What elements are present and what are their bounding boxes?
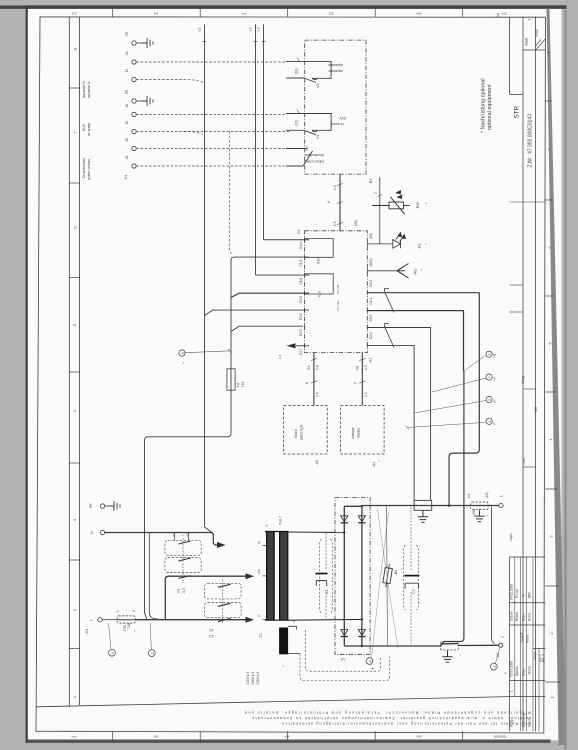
tick at leader end bbox=[228, 349, 232, 353]
bus from D2:1 down to - rail bbox=[441, 371, 464, 646]
svg-text:R.Lud: R.Lud bbox=[515, 589, 519, 598]
leader curves bbox=[378, 509, 399, 648]
ground below F12 bbox=[442, 650, 452, 662]
EUV pump device K1: body bbox=[286, 114, 331, 135]
AC in top bbox=[335, 531, 344, 533]
F12 solid bar bbox=[441, 643, 459, 645]
svg-text:K1: K1 bbox=[316, 134, 320, 138]
svg-text:D1:5: D1:5 bbox=[299, 260, 303, 267]
svg-text:tol: tol bbox=[496, 13, 500, 17]
svg-text:-L3: -L3 bbox=[257, 27, 261, 32]
svg-text:8: 8 bbox=[547, 52, 551, 54]
svg-text:D1:6: D1:6 bbox=[299, 278, 303, 285]
row 79.5 curving into bus bbox=[136, 80, 203, 83]
svg-text:status light: status light bbox=[300, 425, 304, 440]
svg-text:E1:2: E1:2 bbox=[299, 313, 303, 320]
svg-text:L: L bbox=[89, 619, 93, 621]
svg-text:E1:3: E1:3 bbox=[299, 329, 303, 336]
dashed signal rows from terminals bbox=[136, 62, 302, 254]
leader 7 bbox=[432, 378, 486, 392]
svg-text:x2: x2 bbox=[186, 533, 190, 537]
svg-text:-A4: -A4 bbox=[372, 462, 376, 468]
svg-text:-R2: -R2 bbox=[394, 570, 398, 576]
stub X4 bbox=[313, 353, 315, 406]
optional capacitor -C2 dashed enclosure bbox=[403, 507, 418, 644]
svg-text:Analoge: Analoge bbox=[351, 427, 355, 439]
wire bus255 corner to pin D1:6 bbox=[256, 274, 310, 276]
svg-text:display: display bbox=[357, 428, 361, 438]
pin tick aquastat top bbox=[297, 58, 300, 62]
K2 dashed box 1 bbox=[165, 540, 201, 555]
circled 3 bbox=[490, 663, 497, 670]
E2:2 wire down-step to rail bbox=[449, 293, 479, 506]
stub X6 bbox=[361, 353, 363, 406]
circled ref 6 bbox=[179, 350, 185, 356]
svg-text:1: 1 bbox=[551, 697, 555, 699]
svg-text:T4A: T4A bbox=[127, 622, 131, 629]
dashed drop of row 131.5 to bus bbox=[230, 132, 234, 254]
svg-text:1-5: 1-5 bbox=[333, 221, 337, 226]
svg-text:3: 3 bbox=[73, 519, 77, 521]
svg-text:Datum: Datum bbox=[510, 611, 514, 621]
svg-text:4: 4 bbox=[493, 666, 497, 668]
svg-text:6: 6 bbox=[74, 227, 78, 229]
svg-text:BfM: BfM bbox=[528, 592, 532, 598]
svg-text:+: + bbox=[313, 568, 317, 570]
diode top-left bbox=[341, 516, 348, 523]
LDR -R10 bbox=[372, 197, 410, 215]
bus pair x=263.5 bbox=[263, 24, 265, 240]
circled 10 bbox=[486, 418, 492, 424]
svg-text:PE: PE bbox=[125, 90, 129, 94]
terminal row6 bbox=[132, 129, 136, 133]
top cable stub into A1 bbox=[339, 174, 341, 231]
terminal PE (row1) bbox=[132, 41, 141, 45]
svg-text:-X1: -X1 bbox=[124, 175, 128, 181]
svg-text:4: 4 bbox=[73, 410, 77, 412]
primary voltage option labels bbox=[246, 671, 260, 684]
row 148.5 bbox=[136, 148, 300, 150]
contact hook E2:2/D2:1 bbox=[385, 289, 395, 313]
svg-text:X4:: X4: bbox=[307, 365, 311, 370]
svg-text:-R3: -R3 bbox=[369, 179, 373, 185]
svg-text:-X1: -X1 bbox=[85, 629, 89, 635]
svg-text:Gepr.: Gepr. bbox=[522, 613, 526, 621]
svg-text:K2: K2 bbox=[316, 83, 320, 87]
svg-text:Monol: Monol bbox=[294, 429, 298, 438]
pin tick EUV top bbox=[297, 110, 300, 114]
svg-text:Norm: Norm bbox=[528, 613, 532, 621]
svg-text:A04: A04 bbox=[417, 12, 422, 16]
svg-text:17⊥l B+: 17⊥l B+ bbox=[336, 300, 340, 311]
leader 9 bbox=[414, 401, 486, 414]
svg-text:2: 2 bbox=[501, 636, 505, 638]
LED -H1 bbox=[393, 233, 406, 249]
pin wire D2:4 bbox=[367, 345, 414, 500]
svg-text:H1: H1 bbox=[493, 353, 497, 357]
svg-text:PE: PE bbox=[89, 503, 93, 508]
svg-text:16: 16 bbox=[125, 104, 129, 108]
cutout bottom-right wire bbox=[288, 653, 300, 655]
svg-text:-C2: -C2 bbox=[412, 589, 416, 594]
svg-text:205: 205 bbox=[329, 12, 334, 16]
pin wire to LED bbox=[367, 243, 393, 245]
svg-text:(13): (13) bbox=[295, 120, 299, 126]
svg-text:x04: x04 bbox=[285, 734, 290, 738]
bus 204.6 merges into N corner bbox=[205, 527, 214, 534]
- rail bbox=[362, 645, 441, 647]
bus pair x=255.5 bbox=[255, 24, 257, 275]
svg-text:P: P bbox=[493, 422, 497, 424]
svg-text:verbindl. sowie n. alle ausdrü: verbindl. sowie n. alle ausdrücklich ges… bbox=[250, 716, 531, 720]
svg-text:-A1: -A1 bbox=[369, 358, 373, 364]
svg-text:-A2: -A2 bbox=[315, 460, 319, 466]
leader 1 bbox=[109, 623, 112, 649]
svg-text:H+: H+ bbox=[493, 376, 497, 380]
svg-text:EUV: EUV bbox=[82, 123, 86, 131]
margin terminal descriptions bbox=[82, 81, 91, 180]
dot under circle4 bbox=[372, 668, 374, 670]
svg-text:6: 6 bbox=[548, 247, 552, 249]
svg-text:5: 5 bbox=[549, 343, 553, 345]
svg-text:Name: Name bbox=[526, 634, 530, 643]
svg-text:Ph: Ph bbox=[258, 569, 262, 573]
relay coil K10 inside A1 bbox=[305, 238, 334, 257]
optional capacitor -C1 dashed enclosure bbox=[320, 533, 333, 619]
svg-text:1.: 1. bbox=[510, 690, 514, 693]
bus -L1 x=204.6 bbox=[204, 24, 206, 527]
stub X6 labels bbox=[354, 365, 369, 397]
svg-text:9: 9 bbox=[488, 399, 492, 401]
svg-text:Aquastat N: Aquastat N bbox=[82, 81, 86, 98]
N wire with corner and arrow bbox=[105, 533, 218, 546]
svg-text:(80G): (80G) bbox=[369, 258, 373, 266]
svg-text:7: 7 bbox=[548, 149, 552, 151]
svg-text:Druckkontakt: Druckkontakt bbox=[82, 158, 86, 178]
fuse -F11 dashed on + rail bbox=[471, 502, 489, 510]
row 114.5 bbox=[136, 114, 286, 116]
svg-text:pulser contact: pulser contact bbox=[87, 159, 91, 180]
svg-text:D1:8: D1:8 bbox=[299, 296, 303, 303]
svg-text:PE: PE bbox=[125, 32, 129, 36]
title block small texts bbox=[496, 13, 546, 727]
terminal labels bbox=[125, 32, 129, 159]
A1 right pin labels bbox=[369, 280, 373, 339]
C1 plates bbox=[316, 573, 328, 575]
display box -A4 bbox=[341, 406, 385, 455]
svg-text:7: 7 bbox=[488, 376, 492, 378]
-R2 body (tilted) bbox=[382, 563, 393, 588]
L wire to fuse bbox=[102, 619, 117, 621]
light arrows bbox=[395, 190, 401, 195]
contact on Ph wire bbox=[179, 576, 191, 579]
ground below fuse box bbox=[418, 510, 428, 522]
svg-text:2: 2 bbox=[374, 192, 378, 194]
svg-text:-R10: -R10 bbox=[416, 202, 420, 210]
thermal cutout black block bbox=[279, 628, 288, 655]
svg-text:4: 4 bbox=[369, 660, 373, 662]
svg-text:A04: A04 bbox=[417, 734, 422, 738]
tick on leader bbox=[406, 426, 410, 430]
terminal L bbox=[98, 618, 102, 622]
svg-text:-T1: -T1 bbox=[259, 633, 263, 638]
terminal row5 bbox=[132, 112, 136, 116]
svg-text:1x5: 1x5 bbox=[502, 12, 507, 16]
svg-text:Bearb.: Bearb. bbox=[515, 611, 519, 621]
pin wire D2:1 to corner down bbox=[367, 311, 463, 371]
K1 dashed box 2 bbox=[205, 603, 242, 618]
K1 box2 contact bbox=[218, 603, 231, 606]
terminal row7 bbox=[132, 146, 136, 150]
svg-text:N: N bbox=[90, 531, 94, 534]
svg-text:-K2: -K2 bbox=[177, 588, 181, 593]
svg-text:Ltr pump: Ltr pump bbox=[331, 122, 344, 126]
svg-text:4: 4 bbox=[549, 439, 553, 441]
fuse -F10 (dashed box) bbox=[117, 616, 135, 623]
svg-text:pulser contact: pulser contact bbox=[304, 160, 324, 164]
svg-text:-K1: -K1 bbox=[209, 628, 214, 632]
svg-text:Urspr.: Urspr. bbox=[533, 651, 537, 660]
leader from 6 to bus bbox=[185, 351, 231, 353]
svg-text:E2:4: E2:4 bbox=[369, 332, 373, 339]
svg-text:Gepr.: Gepr. bbox=[522, 668, 526, 676]
svg-text:1: 1 bbox=[116, 610, 120, 612]
svg-text:K10: K10 bbox=[317, 258, 321, 264]
svg-text:5: 5 bbox=[265, 525, 269, 527]
svg-text:Ers.g.: Ers.g. bbox=[521, 375, 525, 383]
fuse -F12 dashed on - rail bbox=[441, 642, 459, 650]
internal marks bbox=[278, 285, 340, 359]
svg-text:2: 2 bbox=[132, 610, 136, 612]
scan dark edges bbox=[0, 5, 578, 9]
circled 8 bbox=[486, 351, 492, 357]
pin arrow E1:7 (left pointing) bbox=[287, 343, 310, 348]
+ rail bbox=[362, 505, 499, 507]
ground below F11 bbox=[474, 510, 484, 522]
solid continuation of bus231 bbox=[230, 260, 232, 369]
primary tap labels bbox=[258, 541, 262, 617]
L bus thick bbox=[135, 619, 248, 621]
K2 box2 contact bbox=[179, 558, 191, 561]
svg-text:1: 1 bbox=[292, 620, 296, 622]
field row divisions left strip bbox=[69, 88, 79, 649]
stub ticks bbox=[311, 359, 317, 384]
svg-text:2: 2 bbox=[151, 652, 155, 654]
svg-text:Ers. d.: Ers. d. bbox=[542, 653, 546, 662]
svg-text:1: 1 bbox=[73, 696, 77, 698]
Ph wire from L via K2, with arrow bbox=[165, 576, 248, 620]
terminal PE bottom bbox=[100, 504, 108, 508]
svg-text:-V1: -V1 bbox=[340, 657, 346, 661]
stub X4 labels bbox=[305, 365, 320, 397]
svg-text:1: 1 bbox=[111, 652, 115, 654]
svg-text:-C1: -C1 bbox=[325, 589, 329, 594]
svg-text:x1: x1 bbox=[172, 533, 176, 537]
svg-text:15: 15 bbox=[125, 121, 129, 125]
A1 left pin labels bbox=[299, 242, 303, 355]
svg-text:STR: STR bbox=[514, 105, 521, 118]
leader 10 bbox=[407, 422, 486, 427]
contact on L wire bbox=[218, 618, 231, 621]
K1 dashed box 1 bbox=[205, 583, 242, 599]
svg-text:(10): (10) bbox=[485, 492, 489, 498]
row 166 bbox=[136, 165, 302, 167]
stub ticks bbox=[359, 359, 365, 384]
svg-text:1: 1 bbox=[500, 495, 504, 497]
svg-text:(30): (30) bbox=[472, 509, 476, 515]
svg-text:mm: mm bbox=[72, 734, 77, 738]
top margin band labels bbox=[72, 12, 507, 16]
svg-text:17⊥l B: 17⊥l B bbox=[336, 285, 340, 294]
circled 1 bbox=[109, 649, 116, 656]
ground at PE bottom bbox=[108, 501, 120, 511]
leader 8 bbox=[464, 355, 486, 371]
svg-text:104: 104 bbox=[154, 12, 159, 16]
svg-text:05.03.2008: 05.03.2008 bbox=[510, 661, 514, 677]
field strip verticals left bbox=[68, 17, 70, 707]
K1 box1 contact bbox=[218, 584, 231, 587]
svg-text:8: 8 bbox=[488, 353, 492, 355]
ground at PE row1 bbox=[141, 38, 153, 48]
contact hook D2:3/D2:4 bbox=[385, 324, 395, 348]
primary tap ticks bbox=[263, 546, 267, 620]
wire bus263 corner to pin D1:4 bbox=[264, 239, 310, 241]
svg-text:(60): (60) bbox=[369, 233, 373, 239]
svg-text:5: 5 bbox=[73, 324, 77, 326]
bus pin ticks bbox=[254, 41, 266, 43]
svg-text:(88): (88) bbox=[354, 220, 358, 226]
svg-text:12: 12 bbox=[125, 138, 129, 142]
svg-text:Norm: Norm bbox=[528, 666, 532, 674]
svg-text:1: 1 bbox=[528, 19, 532, 21]
svg-text:b+: b+ bbox=[493, 399, 497, 403]
svg-text:6: 6 bbox=[181, 352, 185, 354]
svg-text:155: 155 bbox=[534, 406, 538, 412]
display box -A2 bbox=[284, 406, 328, 455]
svg-text:E2:3: E2:3 bbox=[369, 315, 373, 322]
stubs from N line bbox=[175, 533, 189, 541]
svg-text:8: 8 bbox=[74, 48, 78, 50]
svg-text:6: 6 bbox=[305, 382, 309, 384]
C2 plates bbox=[404, 575, 419, 577]
svg-text:Vt: Vt bbox=[522, 594, 526, 597]
svg-text:Urs.f.: Urs.f. bbox=[522, 457, 526, 465]
svg-text:210V:1-3: 210V:1-3 bbox=[256, 671, 260, 684]
svg-text:170: 170 bbox=[72, 12, 77, 16]
bottom margin band ticks bbox=[113, 731, 463, 739]
K2 actuator dashed line bbox=[182, 535, 184, 584]
svg-text:90/09/562: 90/09/562 bbox=[494, 734, 507, 738]
relay coil K100 inside A1 bbox=[305, 274, 334, 294]
svg-text:240V:1-5: 240V:1-5 bbox=[246, 671, 250, 684]
svg-text:1-5: 1-5 bbox=[364, 365, 368, 370]
svg-text:D2:1: D2:1 bbox=[369, 298, 373, 305]
second drop wire N to L (cable pair) bbox=[149, 533, 158, 620]
circled 2 bbox=[148, 650, 155, 657]
svg-text:+: + bbox=[400, 568, 404, 570]
svg-text:X6:: X6: bbox=[356, 365, 360, 370]
row 131.5 bbox=[136, 131, 290, 133]
Druckkontakt switch bbox=[286, 149, 313, 167]
+ terminal -X2:1 bbox=[499, 503, 503, 507]
terminal N bbox=[100, 530, 104, 534]
terminal row8 bbox=[132, 164, 136, 168]
notes separator line (tilted in scan) bbox=[36, 697, 510, 707]
fuse -F5 bbox=[227, 369, 235, 390]
vertical link bbox=[379, 177, 381, 244]
svg-text:2: 2 bbox=[550, 633, 554, 635]
svg-text:R.Lück: R.Lück bbox=[520, 632, 524, 642]
svg-text:+L5: +L5 bbox=[242, 12, 247, 16]
svg-text:* Nachrüstung optional: * Nachrüstung optional bbox=[481, 78, 487, 133]
svg-text:Datum: Datum bbox=[515, 666, 519, 676]
svg-text:T1A: T1A bbox=[241, 381, 245, 388]
svg-text:6: 6 bbox=[327, 201, 331, 203]
antenna -W1 bbox=[397, 264, 409, 279]
contact blade K1 bbox=[304, 130, 317, 135]
svg-text:(11): (11) bbox=[295, 69, 299, 74]
K2 box1 contact bbox=[179, 541, 191, 544]
wire bus231 branch to pin E1:3 bbox=[231, 326, 303, 331]
right margin field numbers bbox=[545, 101, 560, 682]
stub ticks + labels bbox=[337, 184, 343, 225]
leader 3 bbox=[496, 648, 500, 664]
svg-text:1:2: 1:2 bbox=[467, 493, 471, 498]
svg-text:K10: K10 bbox=[318, 291, 322, 297]
svg-text:optional equipment: optional equipment bbox=[487, 84, 493, 133]
- terminal -X2:2 bbox=[499, 643, 503, 647]
circled 4 bbox=[366, 658, 373, 665]
svg-text:1-5: 1-5 bbox=[364, 392, 368, 397]
svg-text:-F5: -F5 bbox=[236, 382, 240, 387]
pin wire to antenna bbox=[367, 270, 397, 272]
svg-text:1: 1 bbox=[488, 421, 492, 423]
terminal row2 bbox=[132, 60, 136, 64]
svg-text:104: 104 bbox=[154, 734, 159, 738]
svg-text:3: 3 bbox=[550, 536, 554, 538]
svg-text:Blatt: Blatt bbox=[535, 29, 539, 36]
row 131.5 branch curving into bus bbox=[184, 132, 203, 135]
svg-text:D1:4: D1:4 bbox=[299, 242, 303, 249]
V1 dash-dot box bbox=[335, 498, 370, 655]
wire from F11 down to X2:2 bbox=[492, 507, 495, 644]
svg-text:1-3: 1-3 bbox=[333, 185, 337, 190]
secondary winding bar bbox=[279, 532, 288, 621]
top margin band ticks bbox=[113, 9, 463, 17]
svg-text:E1:7: E1:7 bbox=[299, 348, 303, 355]
svg-text:-W1: -W1 bbox=[414, 269, 418, 276]
transformer top/bottom edges bbox=[265, 531, 288, 533]
diode top-right bbox=[358, 516, 365, 523]
bus 231 below fuse, corner to left, down as 144.5 bbox=[145, 390, 232, 620]
svg-text:2: 2 bbox=[73, 609, 77, 611]
svg-text:13: 13 bbox=[125, 69, 129, 73]
bridge verticals bbox=[344, 506, 362, 646]
svg-text:air pump: air pump bbox=[87, 123, 91, 136]
terminal PE (row4) bbox=[132, 99, 141, 103]
svg-text:-L1: -L1 bbox=[198, 27, 202, 32]
svg-text:/2.2: /2.2 bbox=[208, 634, 214, 638]
svg-text:7: 7 bbox=[74, 132, 78, 134]
svg-text:5: 5 bbox=[354, 382, 358, 384]
svg-text:1-5: 1-5 bbox=[278, 354, 282, 359]
secondary bottom wire bbox=[288, 618, 362, 621]
diode bottom-left bbox=[341, 630, 348, 637]
pin tick 2 bbox=[378, 195, 383, 197]
wire bus231 branch to pin D1:5 bbox=[231, 257, 309, 260]
pin tick druck bbox=[306, 146, 308, 151]
svg-text:P: P bbox=[258, 614, 262, 616]
